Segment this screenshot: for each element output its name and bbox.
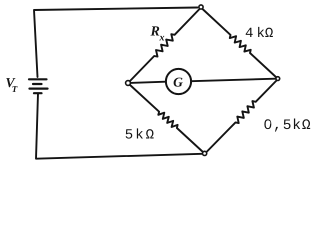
resistor 5 kOhm (arm node B to node D) [130,85,204,153]
plate long top [29,78,47,80]
galvanometer G [166,69,191,94]
battery VT [29,79,48,93]
svg-text:x: x [159,33,165,44]
resistor 4 kOhm (arm node A to node C) [202,9,277,79]
label Rx [150,25,165,44]
wire galvanometer to node C [191,79,275,82]
svg-text:4: 4 [245,26,253,42]
wire node B to galvanometer [130,82,166,83]
plate short [33,83,42,85]
value label 4 kOhm [245,26,273,42]
label VT [6,75,18,94]
svg-text:kΩ: kΩ [257,26,274,42]
svg-text:T: T [12,84,18,94]
node C (right junction) [276,77,280,81]
resistor Rx (arm node B to node A) [130,9,201,82]
resistor 0,5 kOhm (arm node C to node D) [206,80,277,153]
node D (bottom junction) [203,151,207,155]
svg-text:5kΩ: 5kΩ [125,127,156,143]
svg-text:G: G [173,74,183,89]
wire left rail from battery negative down and bottom wire to node D [36,94,202,159]
node B (left junction) [126,81,131,86]
svg-text:0,5kΩ: 0,5kΩ [264,118,312,134]
svg-text:R: R [150,25,160,40]
plate long bottom [30,87,48,89]
plate short bottom [34,92,42,94]
node A (top junction) [199,5,203,9]
wire top from battery positive rail to node A [34,8,198,78]
